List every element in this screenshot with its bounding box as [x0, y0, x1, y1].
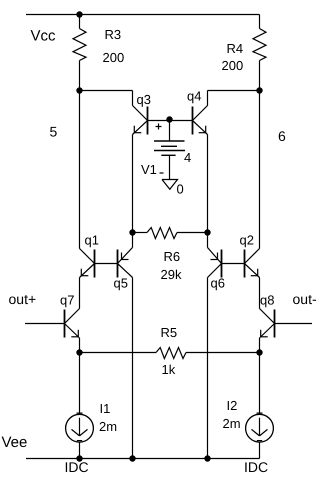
- svg-text:q5: q5: [114, 276, 128, 291]
- svg-text:29k: 29k: [161, 267, 182, 282]
- svg-text:4: 4: [184, 150, 191, 165]
- svg-text:5: 5: [50, 124, 58, 140]
- svg-text:2m: 2m: [99, 419, 117, 434]
- svg-text:R3: R3: [105, 27, 122, 42]
- svg-text:out-: out-: [293, 291, 317, 307]
- svg-text:Vee: Vee: [2, 434, 28, 451]
- svg-text:q2: q2: [240, 233, 254, 248]
- svg-text:Vcc: Vcc: [31, 28, 57, 45]
- svg-text:q3: q3: [137, 92, 151, 107]
- svg-text:I1: I1: [100, 401, 111, 416]
- svg-text:q4: q4: [187, 89, 201, 104]
- svg-text:I2: I2: [227, 398, 238, 413]
- svg-text:R4: R4: [227, 41, 244, 56]
- svg-text:q6: q6: [211, 276, 225, 291]
- svg-text:R5: R5: [161, 325, 178, 340]
- svg-text:out+: out+: [9, 291, 37, 307]
- svg-text:200: 200: [103, 50, 125, 65]
- svg-text:IDC: IDC: [65, 459, 89, 475]
- svg-text:IDC: IDC: [244, 459, 268, 475]
- svg-text:2m: 2m: [223, 416, 241, 431]
- svg-text:R6: R6: [164, 249, 181, 264]
- svg-text:200: 200: [222, 58, 244, 73]
- svg-text:1k: 1k: [162, 362, 176, 377]
- svg-text:6: 6: [278, 128, 286, 144]
- svg-text:q1: q1: [85, 233, 99, 248]
- svg-text:0: 0: [177, 182, 184, 197]
- svg-text:q8: q8: [260, 293, 274, 308]
- svg-text:q7: q7: [60, 293, 74, 308]
- svg-text:V1: V1: [141, 162, 157, 177]
